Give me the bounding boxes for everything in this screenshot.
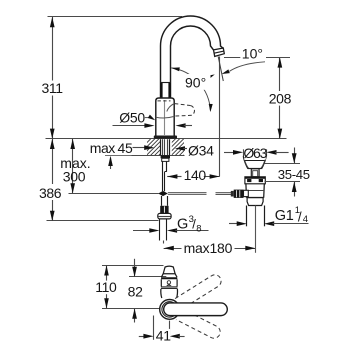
svg-text:41: 41 — [156, 327, 171, 343]
svg-text:G1: G1 — [275, 208, 294, 224]
svg-text:82: 82 — [128, 284, 143, 300]
svg-text:8: 8 — [196, 223, 201, 234]
svg-text:110: 110 — [95, 279, 117, 295]
svg-text:Ø63: Ø63 — [243, 145, 267, 161]
svg-text:Ø34: Ø34 — [188, 143, 214, 159]
svg-text:140: 140 — [184, 167, 207, 183]
svg-text:G: G — [177, 217, 188, 233]
svg-text:10°: 10° — [242, 45, 263, 61]
svg-text:45: 45 — [118, 140, 133, 156]
svg-text:35-45: 35-45 — [278, 167, 310, 182]
svg-text:311: 311 — [42, 80, 64, 96]
svg-text:/: / — [298, 209, 302, 224]
svg-text:208: 208 — [269, 90, 292, 106]
svg-text:90°: 90° — [185, 75, 206, 91]
svg-text:300: 300 — [63, 169, 86, 185]
svg-text:max180: max180 — [184, 240, 233, 256]
svg-text:4: 4 — [303, 214, 308, 225]
svg-text:max: max — [90, 140, 116, 156]
svg-text:386: 386 — [39, 185, 62, 201]
svg-text:Ø50: Ø50 — [119, 109, 145, 125]
